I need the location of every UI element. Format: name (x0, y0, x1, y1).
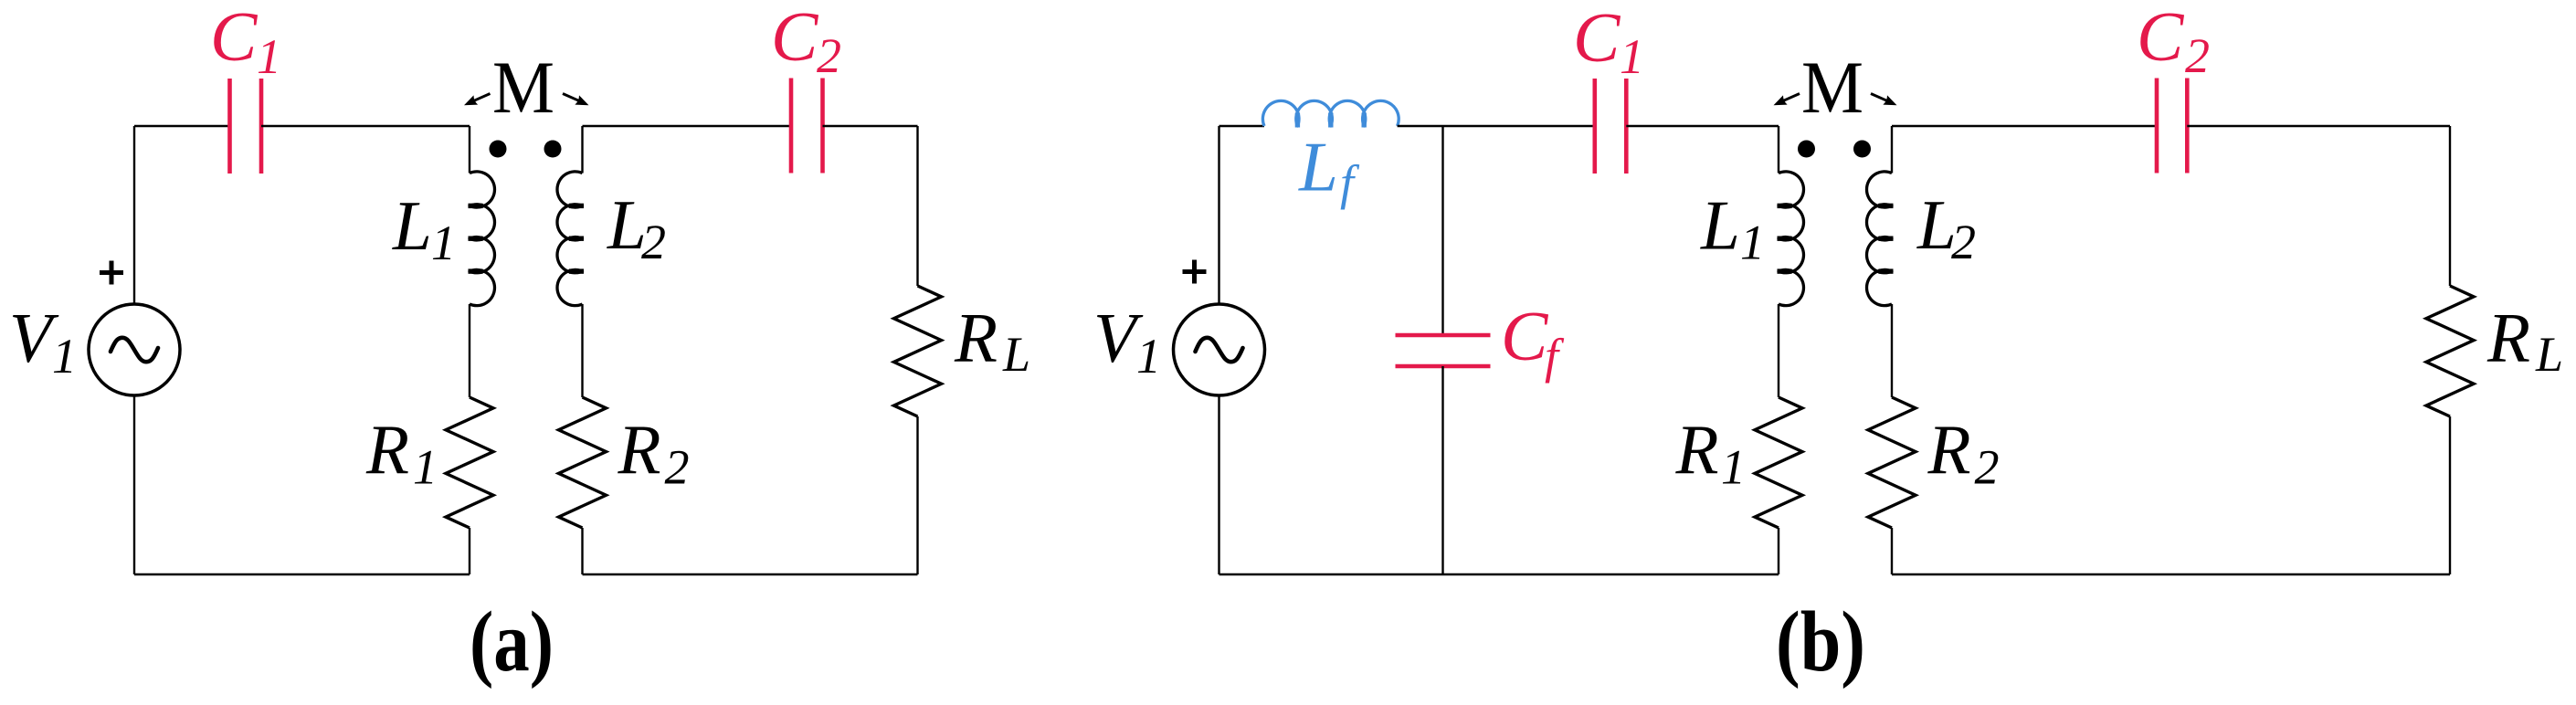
label C2 (b) (2137, 0, 2210, 83)
svg-text:1: 1 (52, 329, 77, 384)
label R2 (b) (1927, 410, 2000, 495)
svg-text:2: 2 (817, 28, 841, 83)
label RL (b) (2486, 299, 2563, 383)
capacitor C2 (b) (2157, 79, 2187, 174)
svg-text:1: 1 (431, 216, 456, 270)
label R1 (a) (365, 410, 438, 495)
wire: (b) R2 to bottom (1891, 528, 1893, 574)
wire: (b) L1 branch top (1778, 126, 1779, 174)
svg-text:R: R (954, 299, 998, 377)
capacitor C2 (a) (791, 79, 823, 174)
resistor R2 (b) (1868, 397, 1916, 528)
wire: (a) top right, L2 to C2 (583, 125, 792, 127)
wire: (b) L2 branch top (1891, 126, 1893, 174)
svg-text:L: L (392, 186, 432, 265)
wire: (b) top segment C2 to RL (2187, 125, 2450, 127)
label C1 (a) (210, 0, 281, 84)
plus sign of source V1 (b) (1183, 260, 1207, 284)
svg-text:C: C (210, 0, 259, 76)
wire: (a) top segment C2 to RL (823, 125, 918, 127)
mutual coupling arrows (b) (1774, 94, 1897, 106)
label R2 (a) (618, 410, 690, 495)
svg-text:1: 1 (1721, 440, 1746, 495)
svg-text:C: C (2137, 0, 2185, 76)
svg-text:R: R (1675, 410, 1719, 489)
inductor Lf (b) (1262, 100, 1399, 127)
resistor R2 (a) (559, 397, 607, 528)
svg-text:2: 2 (1951, 215, 1976, 269)
svg-text:M: M (1801, 46, 1863, 129)
svg-text:L: L (2535, 327, 2563, 382)
wire: (a) right column top (916, 126, 918, 286)
label L2 (a) (607, 185, 666, 269)
svg-text:1: 1 (413, 440, 438, 495)
wire: (a) L2 to R2 (581, 304, 583, 397)
label R1 (b) (1675, 410, 1747, 495)
svg-text:C: C (1573, 0, 1621, 77)
inductor L1 (b) (1778, 172, 1804, 306)
svg-text:R: R (618, 410, 661, 489)
wire: (a) R1 to bottom (469, 528, 470, 574)
wire: (b) bottom of left loop (1219, 573, 1779, 575)
wire: (b) Cf branch top (1441, 126, 1443, 335)
svg-text:1: 1 (257, 29, 281, 84)
svg-text:R: R (2486, 299, 2530, 377)
label C1 (b) (1573, 0, 1644, 84)
wire: (b) L1 to R1 (1778, 304, 1779, 397)
wire: (b) top, Lf to C1 (1398, 125, 1595, 127)
caption (a) (470, 595, 554, 689)
svg-text:2: 2 (2185, 28, 2210, 83)
coupling dots (a) (490, 141, 562, 158)
svg-text:1: 1 (1740, 216, 1765, 270)
resistor R1 (b) (1755, 397, 1802, 528)
wire: circuit (a) top-left segment (134, 125, 230, 127)
wire: (a) R2 to bottom (581, 528, 583, 574)
inductor L1 (a) (469, 172, 495, 306)
voltage source V1 (b) (1174, 304, 1265, 395)
svg-text:1: 1 (1620, 29, 1644, 84)
wire: (b) top right, L2 to C2 (1892, 125, 2157, 127)
label RL (a) (954, 299, 1030, 383)
svg-text:L: L (1700, 186, 1740, 265)
voltage source V1 (a) (89, 304, 180, 395)
wire: (b) bottom of right loop (1892, 573, 2450, 575)
label L1 (b) (1700, 186, 1765, 270)
svg-text:L: L (1298, 128, 1338, 206)
resistor RL (a) (894, 286, 942, 416)
wire: (b) Cf branch bottom (1441, 366, 1443, 574)
wire: (a) L1 to R1 (469, 304, 470, 397)
svg-text:M: M (492, 46, 554, 129)
label C2 (a) (771, 0, 841, 83)
wire: (b) right column top (2449, 126, 2451, 286)
svg-text:(a): (a) (470, 595, 554, 689)
resistor RL (b) (2426, 286, 2474, 416)
capacitor C1 (a) (230, 79, 262, 174)
label V1 (b) (1093, 299, 1161, 384)
wire: (a) L1 branch top (469, 126, 470, 174)
svg-text:L: L (1002, 327, 1030, 382)
wire: (a) left column (133, 126, 135, 574)
wire: (a) bottom of right loop (583, 573, 918, 575)
capacitor C1 (b) (1595, 79, 1627, 174)
caption (b) (1776, 595, 1865, 689)
wire: (a) right column bottom (916, 416, 918, 574)
svg-text:2: 2 (1975, 440, 2000, 495)
svg-text:C: C (1501, 297, 1549, 375)
label Cf (b) (1501, 297, 1565, 384)
inductor L2 (a) (557, 172, 584, 306)
svg-text:R: R (1927, 410, 1971, 489)
svg-text:2: 2 (641, 215, 666, 269)
capacitor Cf (b) (1396, 335, 1491, 366)
svg-text:2: 2 (665, 440, 690, 495)
label Lf (b) (1298, 128, 1360, 211)
wire: (a) top segment C1 to L1 (261, 125, 470, 127)
resistor R1 (a) (446, 397, 493, 528)
wire: (b) R1 to bottom (1778, 528, 1779, 574)
label L1 (a) (392, 186, 456, 270)
wire: (a) L2 branch top (581, 126, 583, 174)
label M (b) (1801, 46, 1863, 129)
svg-text:C: C (771, 0, 819, 76)
wire: (a) bottom of left loop (134, 573, 470, 575)
label M (a) (492, 46, 554, 129)
wire: (b) left column (1218, 126, 1219, 574)
label V1 (a) (9, 299, 77, 384)
mutual coupling arrows (a) (464, 94, 589, 106)
label L2 (b) (1916, 185, 1976, 269)
svg-text:1: 1 (1136, 329, 1161, 384)
wire: (b) top, C1 to L1 (1626, 125, 1779, 127)
wire: (b) right column bottom (2449, 416, 2451, 574)
wire: (b) L2 to R2 (1891, 304, 1893, 397)
coupling dots (b) (1798, 141, 1871, 158)
inductor L2 (b) (1866, 172, 1893, 306)
wire: (b) top-left to Lf (1219, 125, 1265, 127)
plus sign of source V1 (a) (100, 261, 123, 285)
svg-text:(b): (b) (1776, 595, 1865, 689)
svg-text:R: R (365, 410, 409, 489)
